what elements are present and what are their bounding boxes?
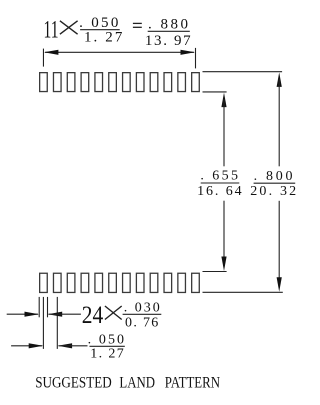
dim .800 vertical shaft lower: [278, 201, 280, 286]
pad T12: [192, 73, 200, 92]
pad T11: [178, 73, 186, 92]
equals sign: [133, 22, 142, 24]
svg-text:1. 27: 1. 27: [90, 346, 125, 361]
svg-text:. 655: . 655: [200, 169, 240, 184]
top dimension line .880: [45, 51, 194, 53]
pad B6: [109, 273, 117, 292]
svg-text:. 880: . 880: [148, 16, 191, 32]
top right horizontal line (pad bottom edge, to .655 dim): [203, 91, 227, 93]
svg-text:. 800: . 800: [254, 169, 296, 184]
svg-text:SUGGESTED: SUGGESTED: [35, 374, 112, 391]
top right horizontal line (pad top edge, to .800 dim): [203, 71, 283, 73]
dim .655 vertical upper arrow: [221, 93, 226, 108]
top dimension arrow left: [44, 50, 59, 55]
dim .800 vertical lower arrow: [277, 277, 282, 292]
extension line pad2 center: [56, 297, 58, 349]
svg-text:20. 32: 20. 32: [250, 184, 298, 199]
top dimension extension line right: [195, 48, 197, 69]
svg-text:16. 64: 16. 64: [197, 184, 243, 199]
svg-text:. 030: . 030: [124, 301, 162, 316]
extension line pad1 right edge: [47, 297, 49, 317]
multiply sign top: [60, 21, 78, 34]
pad width dim leader right: [48, 312, 63, 317]
svg-text:PATTERN: PATTERN: [165, 374, 221, 391]
multiply sign bottom: [105, 306, 122, 320]
svg-text:11: 11: [44, 17, 59, 44]
extension line pad1 center: [42, 297, 44, 349]
bottom right horizontal line (pad top edge, to .655 dim): [203, 271, 227, 273]
pad T9: [150, 73, 158, 92]
svg-text:0. 76: 0. 76: [125, 315, 160, 330]
svg-text:LAND: LAND: [119, 374, 155, 391]
dim .655 vertical lower arrow: [221, 257, 226, 272]
top dimension extension line left: [42, 49, 44, 67]
pad B2: [53, 273, 61, 292]
pad T3: [67, 73, 75, 92]
svg-text:. 050: . 050: [88, 332, 127, 347]
top dimension arrow right: [181, 50, 196, 55]
pitch dim leader left: [11, 345, 42, 347]
pad B10: [164, 273, 172, 292]
pad B5: [95, 273, 103, 292]
pad T4: [81, 73, 89, 92]
pad T6: [109, 73, 117, 92]
svg-text:13. 97: 13. 97: [145, 33, 192, 49]
pad B11: [178, 273, 186, 292]
pitch dim leader right: [58, 343, 73, 348]
svg-text:. 050: . 050: [79, 15, 121, 31]
pad T8: [136, 73, 144, 92]
bottom right horizontal line (pad bottom edge, to .800 dim): [203, 291, 283, 293]
dim .800 vertical shaft upper: [278, 79, 280, 166]
extension line pad1 left edge: [38, 297, 40, 317]
dim .800 vertical upper arrow: [277, 72, 282, 87]
pad T7: [123, 73, 131, 92]
pad B3: [67, 273, 75, 292]
pad B9: [150, 273, 158, 292]
pad T1: [40, 73, 48, 92]
dim .655 vertical shaft lower: [223, 201, 225, 265]
svg-text:1. 27: 1. 27: [84, 30, 125, 46]
pad width dim leader left: [7, 313, 38, 315]
pad T5: [95, 73, 103, 92]
dim .655 vertical shaft upper: [223, 99, 225, 166]
pad B8: [136, 273, 144, 292]
pad T2: [53, 73, 61, 92]
pad B1: [40, 273, 48, 292]
pad B4: [81, 273, 89, 292]
pad B12: [192, 273, 200, 292]
pad T10: [164, 73, 172, 92]
svg-text:24: 24: [82, 302, 104, 329]
pad B7: [123, 273, 131, 292]
